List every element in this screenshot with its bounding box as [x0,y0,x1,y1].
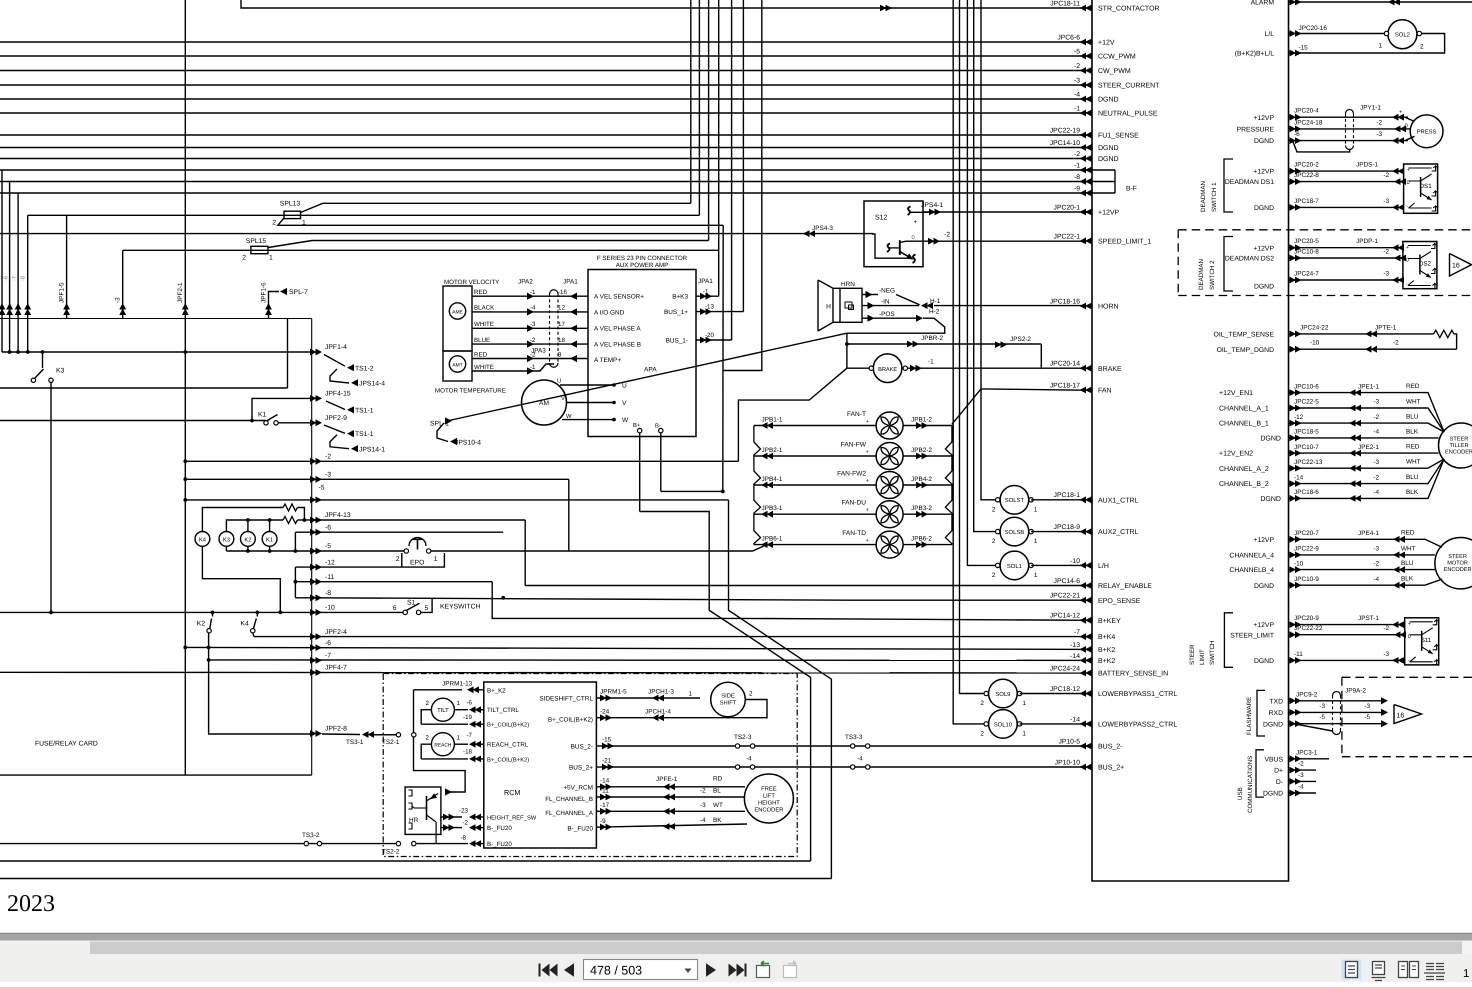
svg-text:-3: -3 [1298,772,1304,779]
bracket deadman switch 2 [1224,237,1233,292]
svg-text:-2: -2 [1376,119,1382,126]
svg-text:JPS14-1: JPS14-1 [359,446,385,453]
svg-text:+12VP: +12VP [1253,245,1274,252]
wire S12 to +12VP JPS4-1 [923,211,934,213]
svg-text:0: 0 [1405,122,1408,129]
deadman switch 2 dashed enclosure [1178,229,1472,231]
solenoid SOL10 [989,710,1018,739]
page bottom divider bar [0,933,1472,941]
svg-text:JPF2-1: JPF2-1 [177,282,184,303]
node (B+K2)B+L/L pin at controller right edge [1290,50,1302,57]
node OIL_TEMP_SENSE pin at controller right edge [1290,331,1302,338]
wire REACH B+ coil loop [421,744,431,759]
svg-text:TS1-2: TS1-2 [355,365,374,372]
svg-text:KEYSWITCH: KEYSWITCH [440,603,480,610]
svg-text:-14: -14 [1070,716,1080,723]
svg-text:BL: BL [713,788,721,795]
wire +5V_RCM row [596,786,745,788]
svg-text:FU1_SENSE: FU1_SENSE [1098,133,1139,140]
wire SPEED_LIMIT_1 from S12 [923,240,1092,242]
svg-text:-24: -24 [600,708,610,715]
svg-text:JPA1: JPA1 [698,278,713,285]
svg-text:-9: -9 [1074,185,1080,192]
node EPO_SENSE pin arrow at controller left edge [1080,597,1092,604]
svg-text:-10: -10 [325,605,335,612]
svg-text:BRAKE: BRAKE [1098,366,1122,373]
svg-text:-7: -7 [1074,629,1080,636]
wire JPB6-1 (left) [754,544,876,546]
node DGND pin at controller right edge [1290,204,1302,211]
node VBUS pin at controller right edge [1290,755,1302,762]
svg-text:-4: -4 [746,755,752,762]
svg-text:JPF1-6: JPF1-6 [260,282,267,303]
wire group -1/-8/-9 to node B-F [0,169,1115,171]
module RCM box [484,682,597,848]
svg-text:ENCODER: ENCODER [1445,450,1472,456]
svg-text:AME: AME [452,309,463,315]
svg-text:+12V_EN2: +12V_EN2 [1219,451,1253,458]
svg-text:WHT: WHT [1406,459,1421,466]
svg-text:-3: -3 [1074,77,1080,84]
wire BUS_2- row (long) [610,745,1092,747]
svg-text:OIL_TEMP_SENSE: OIL_TEMP_SENSE [1214,332,1275,339]
svg-text:JP10-10: JP10-10 [1055,759,1081,766]
fan FAN-FW2 [876,472,903,499]
svg-text:JPC10-7: JPC10-7 [1294,444,1319,451]
svg-text:MOTOR: MOTOR [1447,561,1468,567]
svg-text:MOTOR TEMPERATURE: MOTOR TEMPERATURE [435,387,506,394]
svg-text:2: 2 [992,506,996,513]
node RXD pin at controller right edge [1290,709,1302,716]
node TS1-2 / JPS14-4 stubs [324,355,345,367]
svg-text:U: U [557,379,561,385]
svg-text:STEER_LIMIT: STEER_LIMIT [1230,632,1274,639]
node CHANNEL_A_2 pin at controller right edge [1290,465,1302,472]
svg-text:JPC14-12: JPC14-12 [1050,613,1080,620]
svg-text:B+K4: B+K4 [1098,634,1115,641]
wire JPS4-3 from S12 to left edge [802,234,912,259]
wire bus +12V..NEUTRAL_PULSE rows [0,41,1092,43]
svg-text:-6: -6 [325,524,331,531]
wire AME RED row [472,295,588,297]
svg-text:B+_COIL(B+K2): B+_COIL(B+K2) [487,722,529,729]
svg-text:B+_K2: B+_K2 [487,687,506,694]
bracket usb communications [1256,750,1264,797]
node -8 pin arrow at controller left edge [1080,178,1092,185]
svg-text:+: + [914,220,918,226]
svg-text:JPC24-18: JPC24-18 [1294,119,1323,126]
svg-text:BLK: BLK [1406,489,1419,496]
svg-text:DGND: DGND [1254,658,1274,665]
wire row -11 chain [312,581,493,583]
svg-text:SWITCH: SWITCH [1209,641,1216,665]
wire B-_FU20 row to encoder [596,824,747,827]
svg-text:B+_COIL(B+K2): B+_COIL(B+K2) [548,717,593,724]
wire row RELAY_ENABLE [525,585,1092,587]
svg-text:JPC18-12: JPC18-12 [1050,686,1080,693]
node FU1_SENSE pin arrow at controller left edge [1080,132,1092,139]
node CHANNEL_B_1 pin at controller right edge [1290,420,1302,427]
svg-text:JPC18-16: JPC18-16 [1050,298,1080,305]
toolbar two-page layout icon [1399,962,1408,978]
svg-text:-9: -9 [600,818,606,825]
svg-text:STEER_CURRENT: STEER_CURRENT [1098,83,1160,90]
wire PRESS shield return [1293,141,1350,152]
bracket steer limit switch [1224,613,1233,668]
svg-text:JPC20-16: JPC20-16 [1299,25,1328,32]
toolbar first-page button [539,964,541,977]
svg-text:JPB3-1: JPB3-1 [762,505,783,512]
svg-text:-11: -11 [1294,651,1303,658]
deadman switch DS2 group [1289,247,1403,249]
svg-text:-4: -4 [1373,489,1379,496]
wire JPB3-2 (right) [903,513,952,515]
svg-text:B+K2: B+K2 [1098,647,1115,654]
svg-text:B+K3: B+K3 [672,294,688,301]
svg-text:-3: -3 [1383,651,1389,658]
svg-text:-3: -3 [1319,703,1325,710]
svg-text:-2: -2 [1074,63,1080,70]
svg-text:BUS_2+: BUS_2+ [569,765,593,772]
node BATTERY_SENSE_IN pin arrow at controller left edge [1080,670,1092,677]
svg-text:K2: K2 [244,536,251,543]
svg-text:+12VP: +12VP [1098,210,1120,217]
solenoid BRAKE [847,367,871,369]
svg-text:CW_PWM: CW_PWM [1098,68,1131,75]
wire -POS / node H-2 [862,317,917,319]
svg-text:-1: -1 [928,359,934,366]
svg-text:FL_CHANNEL_A: FL_CHANNEL_A [545,810,594,817]
svg-text:-2: -2 [1373,560,1379,567]
svg-text:-12: -12 [1294,414,1304,421]
svg-text:16: 16 [1397,713,1405,720]
node HORN pin arrow at controller left edge [1080,303,1092,310]
svg-text:B+K2: B+K2 [1098,658,1115,665]
node AUX2_CTRL pin arrow at controller left edge [1080,528,1092,535]
wire JPB3-1 (left) [754,513,876,515]
svg-text:-19: -19 [463,714,473,721]
node TS1-1 stub (JPF4-15) [326,401,345,410]
wire TILT_CTRL row [454,709,468,711]
svg-text:JPC22-13: JPC22-13 [1294,459,1323,466]
svg-text:JPF1-5: JPF1-5 [58,282,65,303]
svg-text:TS1-1: TS1-1 [355,407,374,414]
svg-text:-6: -6 [1294,131,1300,138]
terminal B- of APA [659,428,663,432]
wire B-_FU20 bottom row (-8) [396,841,400,845]
svg-text:CHANNELB_4: CHANNELB_4 [1229,567,1274,574]
svg-text:2: 2 [749,691,753,698]
svg-text:-14: -14 [1070,653,1080,660]
svg-text:JPB1-2: JPB1-2 [911,417,932,424]
svg-text:TS2-2: TS2-2 [382,849,400,856]
solenoid SOL9 [989,679,1018,708]
node TXD pin at controller right edge [1290,697,1302,704]
toolbar previous-page button [564,963,574,977]
switch box S12 [864,201,923,267]
svg-text:A VEL SENSOR+: A VEL SENSOR+ [594,294,644,301]
svg-text:CHANNEL_B_2: CHANNEL_B_2 [1219,481,1269,488]
svg-text:-15: -15 [1299,45,1309,52]
svg-text:PRESS: PRESS [1417,129,1437,136]
node FAN pin arrow at controller left edge [1080,387,1092,394]
wire JPB1-1 (left) [754,425,876,427]
wire B- chain to bottom bus [661,490,723,492]
svg-text:TS3-2: TS3-2 [302,832,320,839]
svg-text:JPS10-4: JPS10-4 [455,440,481,447]
svg-text:BATTERY_SENSE_IN: BATTERY_SENSE_IN [1098,671,1168,678]
valve coil REACH [431,733,454,756]
svg-text:DGND: DGND [1254,138,1274,145]
svg-text:RED: RED [1406,444,1420,451]
svg-text:-3: -3 [1373,399,1379,406]
svg-text:DGND: DGND [1254,583,1274,590]
svg-text:FREE: FREE [761,787,777,793]
svg-text:-3: -3 [1383,198,1389,205]
svg-text:FLASHWARE: FLASHWARE [1246,697,1253,735]
svg-text:COMMUNICATIONS: COMMUNICATIONS [1247,756,1254,813]
wire B+_K2 feed vertical [414,690,466,792]
svg-text:-8: -8 [325,590,331,597]
svg-text:TS2-3: TS2-3 [734,734,752,741]
svg-text:-NEG: -NEG [879,287,895,294]
svg-text:2: 2 [272,220,276,227]
svg-text:TXD: TXD [1269,698,1283,705]
wire -10 long row from left edge to keyswitch [0,611,405,613]
wire B+K3 from APA to top bundle [696,295,719,297]
svg-text:2: 2 [1420,44,1424,51]
svg-text:-2: -2 [944,232,950,239]
svg-text:BLU: BLU [1406,414,1419,421]
svg-text:B-_FU20: B-_FU20 [487,825,512,832]
svg-text:BUS_1-: BUS_1- [666,338,688,345]
wire JPF4-15 branch [252,398,312,420]
svg-text:DS2: DS2 [1419,261,1432,268]
svg-text:1: 1 [1378,43,1382,50]
svg-text:-2: -2 [1393,340,1399,347]
node B+K2 pin arrow at controller left edge [1080,657,1092,664]
svg-text:12: 12 [558,305,565,312]
wire row B+K2b [209,659,1092,662]
svg-text:-5: -5 [325,543,331,550]
svg-text:-23: -23 [459,808,469,815]
wire vertical junction x847 [846,333,848,368]
fuse/relay card FU boundary [0,318,312,320]
svg-text:1: 1 [457,735,461,742]
svg-text:TS3-3: TS3-3 [845,734,863,741]
svg-text:DEADMAN: DEADMAN [1198,259,1205,290]
svg-text:-2: -2 [1074,151,1080,158]
svg-text:SOLSB: SOLSB [1005,529,1025,536]
svg-text:+12V_EN1: +12V_EN1 [1219,390,1253,397]
svg-text:JPC24-24: JPC24-24 [1050,665,1080,672]
wire row B+K4 from K4 [254,636,1092,638]
wire TILT B+ coil loop [421,710,431,725]
svg-text:W: W [622,417,629,424]
svg-text:-6: -6 [4,276,10,281]
svg-text:K4: K4 [241,621,250,628]
svg-text:L/L: L/L [1265,31,1275,38]
wire STR_CONTACTOR [241,0,1092,8]
svg-text:-14: -14 [600,777,610,784]
wire B-_FU20 row (-2) [441,827,462,829]
svg-text:-: - [1408,658,1410,664]
svg-text:JPC14-10: JPC14-10 [1050,140,1080,147]
svg-text:STEER: STEER [1450,437,1469,443]
wire coil bottoms row -5 [225,546,227,551]
svg-text:BRAKE: BRAKE [878,367,897,373]
svg-text:17: 17 [558,321,565,328]
svg-text:RED: RED [1406,383,1420,390]
svg-text:K3: K3 [223,536,230,543]
svg-text:SIDESHIFT_CTRL: SIDESHIFT_CTRL [539,696,593,703]
svg-text:1: 1 [1034,538,1038,545]
wire fan bus top to FAN row [952,389,981,424]
svg-text:-14: -14 [1294,474,1304,481]
solenoid SOL1 [1000,551,1029,580]
svg-text:CHANNEL_A_2: CHANNEL_A_2 [1219,466,1269,473]
svg-text:REACH_CTRL: REACH_CTRL [487,742,529,749]
node B+K2 pin arrow at controller left edge [1080,646,1092,653]
node TS1-1 / JPS14-1 stubs (JPF2-9) [324,425,345,433]
svg-text:V: V [561,396,565,402]
sensor PRESS (pressure transducer) [1289,116,1409,118]
node +12VP pin at controller right edge [1290,621,1302,628]
svg-text:RXD: RXD [1269,710,1283,717]
svg-text:FAN: FAN [1098,388,1112,395]
svg-text:-7: -7 [12,276,18,281]
svg-text:JPC14-6: JPC14-6 [1054,578,1081,585]
node +12V pin arrow at controller left edge [1080,39,1092,46]
svg-text:TS1-1: TS1-1 [355,431,374,438]
svg-text:JPC18-1: JPC18-1 [1054,492,1081,499]
wire HEIGHT_REF_SW row [441,816,462,818]
node RELAY_ENABLE pin arrow at controller left edge [1080,582,1092,589]
node +12VP pin at controller right edge [1290,244,1302,251]
svg-text:478 / 503: 478 / 503 [590,964,642,978]
svg-text:JPC3-1: JPC3-1 [1296,749,1318,756]
node DGND pin at controller right edge [1290,435,1302,442]
svg-text:STR_CONTACTOR: STR_CONTACTOR [1098,6,1160,13]
toolbar next-view icon (disabled) [784,966,797,978]
svg-text:CHANNELA_4: CHANNELA_4 [1229,553,1274,560]
wire B+ chain to bottom bus [640,512,811,862]
svg-text:CHANNEL_B_1: CHANNEL_B_1 [1219,421,1269,428]
wire junction row y352 from left corners to pin JPF1-4 [2,351,312,353]
svg-text:JPC22-5: JPC22-5 [1294,399,1319,406]
svg-text:-7: -7 [325,653,331,660]
svg-text:-10: -10 [1310,340,1320,347]
wire JPF2-8 net [322,733,360,736]
svg-text:-: - [1406,282,1408,288]
svg-text:-5: -5 [319,485,325,492]
svg-text:JPC18-11: JPC18-11 [1050,0,1080,7]
sensor AME motor velocity [443,286,472,351]
node LOWERBYPASS1_CTRL pin arrow at controller left edge [1080,690,1092,697]
svg-text:1: 1 [457,700,461,707]
svg-text:-20: -20 [705,332,715,339]
svg-text:JPC20-14: JPC20-14 [1050,361,1080,368]
switch contact S12 upper [908,207,911,216]
svg-text:K1: K1 [266,537,273,543]
svg-text:HRN: HRN [841,281,855,288]
svg-text:H-2: H-2 [929,309,940,316]
node STEER_LIMIT pin at controller right edge [1290,631,1302,638]
svg-text:JPA1: JPA1 [563,279,578,286]
svg-text:WHT: WHT [1406,398,1421,405]
svg-text:FUSE/RELAY CARD: FUSE/RELAY CARD [35,741,98,748]
svg-text:DEADMAN: DEADMAN [1200,181,1207,212]
svg-text:-10: -10 [1070,558,1080,565]
svg-text:-7: -7 [466,732,472,739]
svg-text:FAN-TD: FAN-TD [842,530,866,537]
svg-text:FAN-FW: FAN-FW [841,442,867,449]
svg-text:-13: -13 [705,304,715,311]
wire +12VP from S12 via JPS4-1 [923,211,1092,213]
toolbar single-page layout icon (active) [1342,960,1362,980]
svg-text:JPF4-7: JPF4-7 [325,665,347,672]
svg-text:JPC22-9: JPC22-9 [1294,546,1319,553]
svg-text:RCM: RCM [504,788,520,797]
svg-text:2: 2 [242,255,246,262]
svg-text:-11: -11 [600,788,609,795]
svg-text:JPY1-1: JPY1-1 [1360,105,1381,112]
splice SPL15 [251,246,268,253]
svg-text:DGND: DGND [1098,97,1119,104]
node DGND pin at controller right edge [1290,277,1302,284]
svg-text:SPL-1: SPL-1 [430,420,449,427]
toolbar continuous layout icon [1373,962,1385,975]
svg-text:USB: USB [1237,787,1244,800]
svg-text:F SERIES 23 PIN CONNECTOR: F SERIES 23 PIN CONNECTOR [597,255,688,262]
svg-text:JPC20-4: JPC20-4 [1294,108,1319,115]
thermistor JPTE-1 (oil temp) [1289,333,1434,335]
svg-text:RED: RED [1401,530,1415,537]
svg-text:BK: BK [713,817,722,824]
svg-text:-2: -2 [1383,249,1389,256]
svg-text:-6: -6 [325,640,331,647]
node PRESSURE pin at controller right edge [1290,125,1302,132]
node DGND pin arrow at controller left edge [1080,96,1092,103]
svg-text:-11: -11 [325,574,335,581]
buzzer triangle 16 (flashware) [1394,705,1422,724]
node DGND pin at controller right edge [1290,137,1302,144]
node DGND pin at controller right edge [1290,720,1302,727]
svg-text:FAN-T: FAN-T [847,411,866,418]
wire to splice SPL-1 (diagonal) [449,333,847,420]
svg-text:DGND: DGND [1260,496,1281,503]
svg-text:LIMIT: LIMIT [1199,649,1206,665]
svg-text:-4: -4 [1298,784,1304,791]
svg-text:-4: -4 [1373,429,1379,436]
svg-text:JPC20-7: JPC20-7 [1294,530,1319,537]
wire flashware shield diagonal [1294,724,1333,731]
svg-text:DEADMAN DS1: DEADMAN DS1 [1225,179,1274,186]
svg-text:APA: APA [644,367,657,374]
svg-text:AUX1_CTRL: AUX1_CTRL [1098,497,1139,504]
svg-text:FAN-DU: FAN-DU [841,500,866,507]
wire JPB6-2 (right) [903,544,952,546]
svg-text:JPC20-9: JPC20-9 [1294,615,1319,622]
svg-text:JPBR-2: JPBR-2 [921,335,943,342]
flashware dashed enclosure [1342,676,1472,678]
svg-text:-3: -3 [1383,271,1389,278]
svg-text:-8: -8 [21,276,27,281]
motor AM [522,380,567,425]
svg-text:+12VP: +12VP [1253,169,1274,176]
wire -NEG [862,294,878,296]
svg-text:JPB1-1: JPB1-1 [762,417,783,424]
